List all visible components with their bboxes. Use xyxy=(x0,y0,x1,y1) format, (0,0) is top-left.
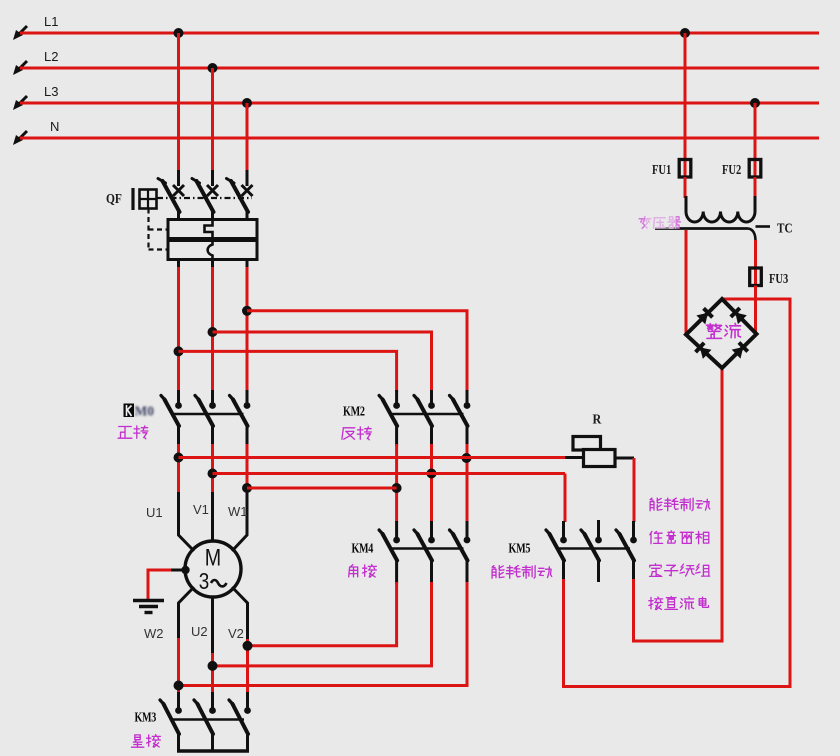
supply arrow L3 xyxy=(13,96,27,110)
KM2 pole1 top lead xyxy=(395,390,398,403)
wire rail L2 xyxy=(20,67,819,70)
svg-text:FU2: FU2 xyxy=(722,162,741,178)
KM4 pole2 bottom lead xyxy=(430,560,433,584)
KM5 pole1 top lead xyxy=(562,521,565,538)
diode D1 (left to +) xyxy=(696,308,712,324)
contactor KM1 label xyxy=(124,404,155,419)
KM3 pole2 bottom lead xyxy=(211,733,214,751)
KM3 pole1 bottom lead xyxy=(177,733,180,751)
wire KM4 pole1 to V2 xyxy=(248,582,397,646)
svg-text:L3: L3 xyxy=(44,84,58,99)
bridge rectifier diamond xyxy=(686,299,757,368)
diode D3 (- to left) xyxy=(696,343,712,359)
QF pole1 upper lead xyxy=(177,170,180,186)
KM1 pole1 contact xyxy=(161,396,182,427)
KM5 linkage xyxy=(557,547,631,549)
QF pole2 lead to release box xyxy=(211,211,214,220)
node L1-QF tap xyxy=(174,28,184,38)
QF pole1 lead to release box xyxy=(177,211,180,220)
wire QF3 down to KM1 pole3 xyxy=(246,267,249,392)
QF pole3 upper lead xyxy=(246,170,249,186)
svg-text:W1: W1 xyxy=(228,504,248,519)
svg-text:KM2: KM2 xyxy=(343,403,365,419)
svg-text:V2: V2 xyxy=(228,626,244,641)
wire KM2 pole3 to KM4 pole3 xyxy=(466,444,469,522)
motor lead U2 xyxy=(211,597,214,655)
KM3 pole1 contact xyxy=(160,700,182,734)
QF magnetic release symbol xyxy=(208,241,213,260)
wire L3 to FU2 xyxy=(754,103,757,160)
TC secondary right bend xyxy=(749,229,756,242)
wire KM1 pole1 to U1 xyxy=(177,444,180,494)
QF thermal release symbol xyxy=(205,220,213,239)
wire KM1 pole2 to V1 xyxy=(211,444,214,494)
wire rail N xyxy=(20,137,819,140)
KM2 pole2 top lead xyxy=(430,390,433,403)
svg-text:N: N xyxy=(50,119,59,134)
KM5 pole2 bottom stub xyxy=(597,560,600,582)
KM4 pole3 contact xyxy=(450,530,471,561)
transformer TC secondary xyxy=(655,227,749,230)
wire KM1 pole3 to W1 xyxy=(246,444,249,494)
KM3 pole1 top lead xyxy=(177,692,180,708)
wire KM5 pole1 to bridge + xyxy=(564,299,791,687)
svg-text:L2: L2 xyxy=(44,49,58,64)
QF linkage dash-dot xyxy=(157,197,252,199)
svg-text:W2: W2 xyxy=(144,626,164,641)
wire QF2 down to KM1 pole2 xyxy=(211,267,214,392)
svg-text:QF: QF xyxy=(106,191,122,206)
svg-text:KM4: KM4 xyxy=(352,540,374,556)
KM1 pole3 contact xyxy=(230,396,251,427)
wire down to KM5 pole1 xyxy=(564,474,567,523)
QF release box lower xyxy=(168,241,257,260)
fuse FU2 xyxy=(749,158,761,180)
svg-text:M: M xyxy=(205,544,221,571)
QF pole1 breaker X contact xyxy=(173,185,184,196)
label rectifier 整流 xyxy=(707,323,741,338)
svg-text:R: R xyxy=(593,412,602,427)
wire tie W1 to KM2 pole1 xyxy=(247,487,397,490)
KM5 pole2 top stub xyxy=(597,520,600,538)
KM5 pole1 bottom lead xyxy=(562,560,565,581)
TC terminal tick xyxy=(756,225,771,228)
svg-text:V1: V1 xyxy=(193,502,209,517)
R right lead xyxy=(615,457,634,460)
motor lead U1 xyxy=(179,492,195,551)
wire rail L1 xyxy=(20,32,819,35)
svg-text:KM5: KM5 xyxy=(509,540,531,556)
node QF3 branch xyxy=(242,306,252,316)
KM5 pole3 bottom lead xyxy=(632,560,635,581)
QF dashed link lower xyxy=(149,248,168,250)
KM1 linkage xyxy=(172,413,244,415)
wire KM2 pole2 to KM4 pole2 xyxy=(430,444,433,522)
KM4 pole1 top lead xyxy=(395,521,398,538)
motor left terminal xyxy=(171,569,185,572)
svg-text:3: 3 xyxy=(199,569,209,594)
KM5 pole1 contact xyxy=(546,530,567,561)
KM3 pole2 contact xyxy=(194,700,216,734)
supply arrow L2 xyxy=(13,61,27,75)
node KM2p2 tie xyxy=(427,469,437,479)
node U2 xyxy=(208,661,218,671)
ground symbol xyxy=(133,601,164,613)
note line3 定子绕组 xyxy=(650,564,710,577)
wire U2 to KM3 pole2 xyxy=(211,653,214,694)
KM1 pole3 bottom lead xyxy=(246,426,249,447)
svg-text:FU1: FU1 xyxy=(652,162,671,178)
KM1 pole2 top lead xyxy=(211,390,214,403)
KM1 pole3 top lead xyxy=(246,390,249,403)
node KM2p1 tie xyxy=(392,483,402,493)
KM2 pole3 top lead xyxy=(466,390,469,403)
svg-text:M0: M0 xyxy=(135,404,155,419)
QF pole1 lower stub xyxy=(177,260,180,270)
KM2 linkage xyxy=(390,413,464,415)
KM4 pole1 contact xyxy=(379,530,400,561)
node U1 cross-tie xyxy=(174,453,184,463)
QF pole2 upper lead xyxy=(211,170,214,186)
node KM2p3 tie xyxy=(462,453,472,463)
QF actuator box xyxy=(140,190,157,209)
KM1 pole2 contact xyxy=(195,396,216,427)
wire V2 to KM3 pole3 xyxy=(246,639,249,694)
wire FU1 to TC xyxy=(684,177,687,198)
KM4 linkage xyxy=(390,547,464,549)
KM4 pole1 bottom lead xyxy=(395,560,398,584)
node W1 cross-tie xyxy=(242,483,252,493)
wire tie line to KM5 pole1 xyxy=(213,472,566,475)
supply arrow N xyxy=(13,131,27,145)
KM1 pole2 bottom lead xyxy=(211,426,214,447)
KM3 pole3 top lead xyxy=(246,692,249,708)
KM2 pole2 bottom lead xyxy=(430,426,433,447)
svg-text:U1: U1 xyxy=(146,505,163,520)
wire FU3 to bridge xyxy=(754,286,757,335)
node L2-QF tap xyxy=(208,63,218,73)
node L1-FU1 tap xyxy=(680,28,690,38)
motor lead V1 xyxy=(211,492,214,541)
note line2 任意两相 xyxy=(650,531,709,544)
svg-text:U2: U2 xyxy=(191,624,208,639)
motor lead W2 xyxy=(179,587,195,640)
wire FU2 to TC xyxy=(754,177,757,198)
QF pole2 breaker X contact xyxy=(207,185,218,196)
svg-text:FU3: FU3 xyxy=(769,271,788,287)
wire QF1 down to KM1 pole1 xyxy=(177,267,180,392)
resistor R body xyxy=(573,437,615,467)
wire L2 to QF pole2 xyxy=(211,68,214,172)
label KM5 braking 能耗制动 xyxy=(492,566,552,579)
wire tie line to resistor R xyxy=(179,456,566,459)
node V2 xyxy=(243,641,253,651)
node L3-FU2 tap xyxy=(750,98,760,108)
KM3 pole3 bottom lead xyxy=(246,733,249,751)
label KM1 forward 正转 xyxy=(118,426,148,439)
label KM3 star 星接 xyxy=(132,735,161,748)
QF pole3 lower stub xyxy=(246,260,249,270)
wire TC right to FU3 xyxy=(754,240,757,269)
svg-text:KM3: KM3 xyxy=(135,709,157,725)
KM2 pole3 contact xyxy=(450,396,471,427)
node L3-QF tap xyxy=(242,98,252,108)
QF dashed link vertical xyxy=(147,209,149,251)
wire motor to ground xyxy=(148,570,171,599)
KM5 pole2 contact xyxy=(581,530,602,561)
QF pole2 blade xyxy=(192,179,214,213)
note line4 接直流电 xyxy=(649,597,709,610)
wire R to KM5 pole3 xyxy=(633,458,636,522)
KM4 pole2 top lead xyxy=(430,521,433,538)
supply arrow L1 xyxy=(13,26,27,40)
QF pole3 lead to release box xyxy=(246,211,249,220)
motor lead V2 xyxy=(232,587,248,641)
KM2 pole1 bottom lead xyxy=(395,426,398,447)
QF handle bar xyxy=(131,188,134,210)
QF dashed link upper xyxy=(149,228,168,230)
QF pole3 breaker X contact xyxy=(242,185,253,196)
wire KM4 pole3 to W2 xyxy=(179,582,468,686)
wire L3 to QF pole3 xyxy=(246,103,249,172)
wire QF3 to KM2 pole3 xyxy=(247,311,467,392)
motor M 3~ xyxy=(185,541,241,597)
KM3 star point bar xyxy=(177,749,249,753)
QF pole1 blade xyxy=(158,179,180,213)
diode D4 (- to right) xyxy=(732,343,748,359)
wire L1 to FU1 xyxy=(684,33,687,160)
node QF2 branch xyxy=(208,327,218,337)
wire QF2 to KM2 pole2 xyxy=(213,332,432,392)
QF pole3 blade xyxy=(227,179,249,213)
KM1 pole1 top lead xyxy=(177,390,180,403)
node V1 cross-tie xyxy=(208,469,218,479)
svg-text:L1: L1 xyxy=(44,14,58,29)
transformer TC primary winding xyxy=(686,196,755,222)
wire W2 to KM3 pole1 xyxy=(177,638,180,694)
KM4 pole3 bottom lead xyxy=(466,560,469,584)
node QF1 branch xyxy=(174,346,184,356)
wire KM2 pole1 to KM4 pole1 xyxy=(395,444,398,522)
fuse FU3 xyxy=(750,266,762,288)
QF release box upper xyxy=(168,220,257,239)
label transformer 变压器 (smudged) xyxy=(639,217,680,229)
node motor left terminal xyxy=(181,566,189,574)
KM4 pole2 contact xyxy=(414,530,435,561)
wire L1 to QF pole1 xyxy=(177,33,180,171)
KM3 pole2 top lead xyxy=(211,692,214,708)
KM2 pole1 contact xyxy=(379,396,400,427)
wire rail L3 xyxy=(20,102,819,105)
svg-text:TC: TC xyxy=(777,220,793,235)
wire QF1 to KM2 pole1 xyxy=(179,351,397,392)
wire TC left to bridge xyxy=(685,230,688,335)
KM4 pole3 top lead xyxy=(466,521,469,538)
KM1 pole1 bottom lead xyxy=(177,426,180,447)
motor lead W1 xyxy=(232,492,247,551)
label KM2 reverse 反转 xyxy=(342,427,372,440)
note line1 能耗制动 xyxy=(650,498,710,511)
KM3 linkage xyxy=(172,718,245,720)
diode D2 (right to +) xyxy=(731,308,747,324)
label KM4 delta 角接 xyxy=(349,565,377,578)
KM5 pole3 contact xyxy=(616,530,637,561)
wire KM4 pole2 to U2 xyxy=(213,582,432,666)
KM5 pole3 top lead xyxy=(632,521,635,538)
QF pole2 lower stub xyxy=(211,260,214,270)
KM2 pole2 contact xyxy=(414,396,435,427)
KM3 pole3 contact xyxy=(229,700,251,734)
fuse FU1 xyxy=(679,158,691,180)
R left lead xyxy=(565,456,584,459)
KM2 pole3 bottom lead xyxy=(466,426,469,447)
node W2 xyxy=(174,681,184,691)
wire KM5 pole3 to bridge - xyxy=(634,368,723,641)
